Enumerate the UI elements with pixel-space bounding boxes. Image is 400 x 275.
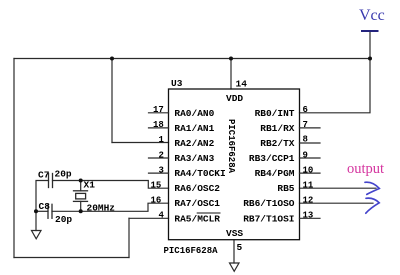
wire left vertical from rail to bottom bbox=[13, 59, 15, 258]
pin 10 stub bbox=[300, 172, 321, 174]
capacitor C7 bbox=[49, 174, 53, 188]
svg-text:C8: C8 bbox=[39, 201, 51, 212]
wire pin11 RB5 output bbox=[300, 187, 377, 189]
ground symbol under pin5 bbox=[230, 263, 240, 271]
svg-text:VDD: VDD bbox=[226, 93, 243, 104]
wire Vcc stem bbox=[369, 31, 371, 59]
pin 13 stub bbox=[300, 217, 321, 219]
IC U3 PIC16F628A body bbox=[169, 89, 300, 240]
pin 2 stub bbox=[149, 157, 169, 159]
wire pin14 VDD drop from rail bbox=[230, 59, 232, 90]
svg-text:13: 13 bbox=[303, 211, 314, 221]
svg-text:C7: C7 bbox=[38, 170, 50, 181]
pin 3 stub bbox=[149, 172, 169, 174]
junction dot rail-Vcc bbox=[368, 57, 372, 61]
wire C7 left lead and ground leg bbox=[36, 181, 49, 231]
wire pin12 RB6 output bbox=[300, 202, 374, 204]
svg-text:RB6/T1OSO: RB6/T1OSO bbox=[243, 198, 295, 209]
svg-text:output: output bbox=[347, 161, 384, 177]
svg-text:2: 2 bbox=[159, 150, 164, 160]
junction dot rail-pin14 bbox=[229, 57, 233, 61]
svg-text:9: 9 bbox=[303, 150, 308, 160]
wire X1 bottom stem bbox=[80, 201, 82, 211]
ground symbol left bbox=[32, 231, 42, 239]
wire pin4 RA5/MCLR to chip bbox=[129, 217, 169, 219]
svg-text:RA6/OSC2: RA6/OSC2 bbox=[174, 183, 220, 194]
svg-text:U3: U3 bbox=[171, 78, 183, 89]
svg-text:RA2/AN2: RA2/AN2 bbox=[174, 138, 214, 149]
svg-text:11: 11 bbox=[303, 181, 314, 191]
svg-text:8: 8 bbox=[303, 135, 308, 145]
svg-text:7: 7 bbox=[303, 120, 308, 130]
pin 9 stub bbox=[300, 157, 321, 159]
junction dot X1 bottom bbox=[79, 209, 83, 213]
junction dot rail-pin1 bbox=[110, 57, 114, 61]
svg-text:RA7/OSC1: RA7/OSC1 bbox=[174, 198, 220, 209]
MCLR overline bbox=[197, 212, 220, 214]
svg-text:Vcc: Vcc bbox=[359, 7, 385, 24]
wire bottom horizontal MCLR run bbox=[14, 257, 129, 259]
svg-text:RB2/TX: RB2/TX bbox=[260, 138, 295, 149]
wire vertical up to pin4 row bbox=[128, 218, 130, 257]
svg-text:RB5: RB5 bbox=[277, 183, 294, 194]
svg-text:4: 4 bbox=[159, 211, 165, 221]
junction dot C8 ground bbox=[34, 209, 38, 213]
svg-text:PIC16F628A: PIC16F628A bbox=[164, 246, 219, 256]
annotation arrow on RB5 bbox=[365, 182, 379, 194]
svg-text:RA4/T0CKI: RA4/T0CKI bbox=[174, 168, 225, 179]
svg-text:RB7/T1OSI: RB7/T1OSI bbox=[243, 213, 294, 224]
svg-text:VSS: VSS bbox=[226, 228, 243, 239]
wire X1 bottom node to pin16 RA7/OSC1 bbox=[81, 203, 169, 211]
wire C7 right lead to X1 node bbox=[53, 180, 81, 182]
svg-text:12: 12 bbox=[303, 196, 314, 206]
wire X1 top stem bbox=[80, 181, 82, 191]
svg-text:20p: 20p bbox=[55, 169, 72, 180]
svg-text:RB3/CCP1: RB3/CCP1 bbox=[249, 153, 295, 164]
wire C8 left lead bbox=[36, 210, 48, 212]
svg-text:RB4/PGM: RB4/PGM bbox=[255, 168, 295, 179]
wire pin1 RA2/AN2 to chip bbox=[112, 142, 169, 144]
svg-text:5: 5 bbox=[237, 242, 243, 253]
svg-text:6: 6 bbox=[303, 105, 308, 115]
wire rail drop to pin1 RA2 bbox=[111, 59, 113, 143]
svg-text:15: 15 bbox=[151, 181, 162, 191]
svg-text:PIC16F628A: PIC16F628A bbox=[226, 119, 236, 174]
wire top Vcc rail bbox=[14, 58, 370, 60]
svg-text:20MHz: 20MHz bbox=[87, 203, 116, 214]
annotation arrow on RB6 bbox=[366, 198, 379, 213]
junction dot X1 top bbox=[79, 179, 83, 183]
svg-text:RB0/INT: RB0/INT bbox=[255, 108, 295, 119]
wire C8 right lead to X1 bottom node bbox=[52, 210, 81, 212]
wire X1 top node to pin15 RA6/OSC2 bbox=[81, 181, 169, 189]
pin 8 stub bbox=[300, 142, 321, 144]
pin 7 stub bbox=[300, 127, 321, 129]
svg-text:RA5/MCLR: RA5/MCLR bbox=[174, 213, 220, 224]
svg-text:RB1/RX: RB1/RX bbox=[260, 123, 295, 134]
svg-text:3: 3 bbox=[159, 165, 164, 175]
crystal X1 bbox=[74, 191, 88, 202]
svg-text:RA0/AN0: RA0/AN0 bbox=[174, 108, 214, 119]
svg-text:20p: 20p bbox=[55, 214, 72, 225]
svg-text:10: 10 bbox=[303, 165, 314, 175]
capacitor C8 bbox=[48, 204, 52, 218]
pin 17 stub bbox=[149, 112, 169, 114]
wire pin6 RB0/INT to Vcc bbox=[300, 59, 371, 113]
svg-text:18: 18 bbox=[153, 120, 164, 130]
svg-text:RA3/AN3: RA3/AN3 bbox=[174, 153, 214, 164]
svg-text:1: 1 bbox=[159, 135, 165, 145]
wire pin5 VSS to ground bbox=[233, 240, 235, 263]
svg-text:17: 17 bbox=[153, 105, 164, 115]
svg-text:14: 14 bbox=[236, 79, 248, 90]
power symbol Vcc bar bbox=[362, 30, 378, 32]
svg-text:16: 16 bbox=[151, 196, 162, 206]
pin 18 stub bbox=[149, 127, 169, 129]
svg-text:X1: X1 bbox=[84, 180, 96, 191]
svg-text:RA1/AN1: RA1/AN1 bbox=[174, 123, 214, 134]
